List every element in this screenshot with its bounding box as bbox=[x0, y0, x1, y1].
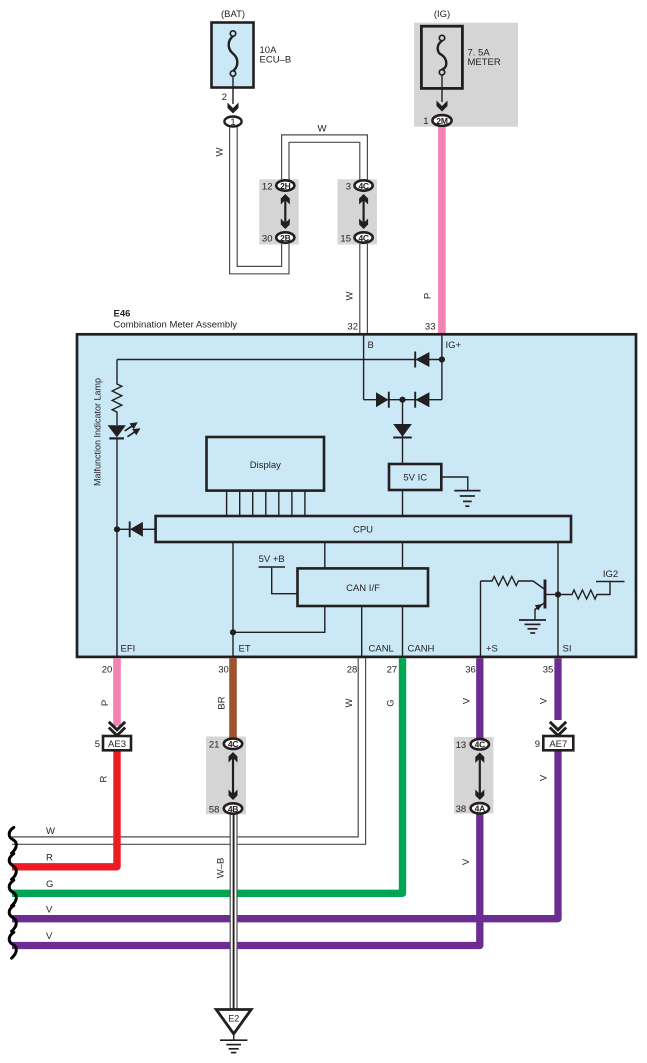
svg-text:2: 2 bbox=[222, 92, 227, 103]
svg-text:CAN I/F: CAN I/F bbox=[346, 583, 380, 594]
svg-text:(BAT): (BAT) bbox=[221, 9, 245, 20]
svg-text:36: 36 bbox=[465, 665, 476, 676]
svg-text:CANL: CANL bbox=[369, 644, 394, 655]
svg-text:G: G bbox=[386, 699, 397, 706]
svg-text:27: 27 bbox=[387, 665, 398, 676]
svg-text:G: G bbox=[46, 879, 53, 890]
svg-text:W: W bbox=[345, 291, 356, 300]
svg-text:ECU–B: ECU–B bbox=[260, 55, 292, 66]
svg-text:32: 32 bbox=[347, 322, 358, 333]
svg-text:2B: 2B bbox=[280, 233, 290, 243]
svg-text:28: 28 bbox=[347, 665, 358, 676]
svg-text:METER: METER bbox=[468, 57, 501, 68]
svg-text:1: 1 bbox=[423, 116, 428, 127]
svg-text:33: 33 bbox=[425, 322, 436, 333]
svg-text:W: W bbox=[318, 124, 327, 135]
svg-text:2H: 2H bbox=[280, 181, 290, 191]
svg-text:CPU: CPU bbox=[353, 525, 373, 536]
svg-text:E2: E2 bbox=[228, 1014, 239, 1024]
svg-text:V: V bbox=[461, 858, 472, 865]
svg-text:(IG): (IG) bbox=[434, 9, 450, 20]
svg-text:Combination Meter Assembly: Combination Meter Assembly bbox=[114, 320, 238, 331]
svg-text:CANH: CANH bbox=[408, 644, 435, 655]
svg-text:SI: SI bbox=[563, 644, 572, 655]
svg-text:2M: 2M bbox=[436, 116, 447, 126]
svg-text:EFI: EFI bbox=[121, 644, 136, 655]
svg-text:9: 9 bbox=[535, 739, 540, 750]
svg-text:15: 15 bbox=[340, 233, 351, 244]
svg-text:4C: 4C bbox=[228, 739, 238, 749]
svg-text:58: 58 bbox=[209, 804, 220, 815]
svg-text:3: 3 bbox=[346, 181, 351, 192]
svg-text:13: 13 bbox=[456, 740, 467, 751]
svg-text:1: 1 bbox=[230, 117, 235, 128]
svg-text:V: V bbox=[46, 931, 53, 942]
svg-text:R: R bbox=[46, 853, 53, 864]
svg-text:35: 35 bbox=[543, 665, 554, 676]
svg-text:30: 30 bbox=[218, 665, 229, 676]
svg-text:V: V bbox=[462, 697, 473, 704]
svg-text:BR: BR bbox=[217, 696, 228, 709]
svg-text:4C: 4C bbox=[358, 233, 368, 243]
svg-text:4B: 4B bbox=[228, 804, 238, 814]
svg-text:IG+: IG+ bbox=[446, 340, 462, 351]
svg-text:B: B bbox=[368, 340, 374, 351]
svg-text:V: V bbox=[46, 905, 53, 916]
svg-text:W: W bbox=[344, 698, 355, 707]
svg-text:30: 30 bbox=[262, 233, 273, 244]
svg-text:Malfunction Indicator Lamp: Malfunction Indicator Lamp bbox=[93, 378, 103, 486]
svg-text:V: V bbox=[539, 774, 550, 781]
svg-text:12: 12 bbox=[262, 181, 273, 192]
svg-text:+S: +S bbox=[486, 644, 498, 655]
svg-text:21: 21 bbox=[209, 740, 220, 751]
svg-text:AE7: AE7 bbox=[549, 739, 567, 750]
svg-text:5V IC: 5V IC bbox=[403, 473, 427, 484]
svg-text:38: 38 bbox=[456, 804, 467, 815]
svg-text:P: P bbox=[423, 293, 434, 299]
svg-text:ET: ET bbox=[239, 644, 251, 655]
svg-text:20: 20 bbox=[102, 665, 113, 676]
svg-text:W: W bbox=[215, 147, 226, 156]
svg-text:5V +B: 5V +B bbox=[259, 554, 285, 565]
svg-text:Display: Display bbox=[250, 460, 281, 471]
svg-text:P: P bbox=[100, 700, 111, 706]
svg-text:5: 5 bbox=[95, 739, 100, 750]
svg-text:4C: 4C bbox=[358, 181, 368, 191]
svg-text:E46: E46 bbox=[114, 309, 131, 320]
svg-text:IG2: IG2 bbox=[603, 569, 618, 580]
svg-text:4A: 4A bbox=[475, 804, 485, 814]
svg-text:W–B: W–B bbox=[216, 858, 227, 879]
svg-text:4C: 4C bbox=[475, 740, 485, 750]
svg-text:R: R bbox=[99, 775, 110, 782]
svg-text:V: V bbox=[539, 697, 550, 704]
svg-text:AE3: AE3 bbox=[108, 739, 126, 750]
svg-text:W: W bbox=[46, 826, 55, 837]
